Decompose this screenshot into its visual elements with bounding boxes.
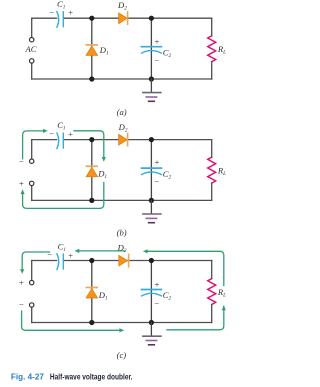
node dot: C2 top	[149, 258, 154, 263]
ground symbol	[143, 323, 161, 345]
wire: (a) top wire left of C1	[32, 17, 57, 19]
svg-text:+: +	[154, 279, 160, 289]
wire: right vertical	[211, 261, 213, 323]
current arrow: (c) bottom-left hook rightward	[22, 311, 120, 330]
arrowhead right	[43, 129, 48, 133]
wire: right vertical	[211, 140, 213, 201]
svg-text:+: +	[18, 278, 24, 288]
node dot: ground node	[149, 320, 154, 325]
resistor RL	[208, 36, 216, 62]
wire: (b) left vertical	[31, 140, 33, 201]
resistor RL	[208, 157, 216, 183]
current arrow: (c) top-left hook down to plus	[22, 252, 49, 269]
svg-text:+: +	[68, 7, 74, 17]
svg-text:−: −	[47, 250, 53, 260]
node dot: C2 top	[149, 137, 154, 142]
svg-text:−: −	[154, 176, 160, 186]
svg-text:−: −	[18, 156, 24, 166]
node dot: D1 bottom	[89, 320, 94, 325]
current arrow: (c) top right leftward and down right side	[148, 251, 224, 285]
wire: C2 branch vertical	[150, 261, 152, 323]
current arrow: (c) right side lower with up arrow	[167, 306, 224, 329]
svg-text:Half-wave voltage doubler.: Half-wave voltage doubler.	[50, 372, 133, 382]
svg-text:(b): (b)	[117, 227, 127, 237]
resistor RL	[208, 279, 216, 305]
svg-text:−: −	[154, 298, 160, 308]
svg-text:+: +	[154, 157, 160, 167]
arrowhead right	[119, 328, 124, 332]
diode D2	[119, 12, 128, 24]
arrowhead left	[143, 249, 148, 253]
wire: D1 branch vertical	[91, 261, 93, 323]
svg-text:−: −	[154, 56, 160, 66]
svg-text:Fig. 4-27: Fig. 4-27	[11, 372, 44, 382]
capacitor C2 symbol	[142, 47, 162, 53]
arrowhead up	[21, 189, 25, 194]
node dot: D1 top	[89, 137, 94, 142]
wire: D1 branch vertical	[91, 18, 93, 79]
wire: (c) left vertical	[31, 261, 33, 323]
wire: (b) bottom wire	[32, 199, 212, 201]
ground symbol	[143, 200, 161, 222]
wire: (a) bottom wire	[32, 78, 212, 80]
diode D2	[119, 254, 129, 266]
wire: (a) top wire right of C1	[63, 17, 211, 19]
terminal: (a) AC bottom terminal	[30, 59, 34, 63]
svg-text:AC: AC	[25, 44, 37, 54]
node dot: C2 top	[149, 16, 154, 21]
svg-text:−: −	[49, 129, 55, 139]
diode D1	[86, 288, 98, 299]
wire: (c) top wire	[32, 260, 212, 262]
terminal: (b) top (minus)	[30, 159, 34, 163]
terminal: (c) top (plus)	[30, 280, 34, 284]
wire: C2 branch vertical	[150, 140, 152, 201]
wire: D1 branch vertical	[91, 140, 93, 201]
current arrow: (b) top-right segment going down	[74, 131, 104, 157]
node dot: ground node	[149, 198, 154, 203]
arrowhead down	[102, 157, 106, 162]
svg-text:(a): (a)	[117, 107, 127, 117]
arrowhead down	[20, 269, 24, 274]
capacitor C1 symbol	[57, 12, 63, 28]
arrowhead up	[222, 305, 226, 310]
terminal: (a) AC top terminal	[30, 38, 34, 42]
arrowhead left	[75, 249, 80, 253]
terminal: (b) bottom (plus)	[30, 181, 34, 185]
svg-text:(c): (c)	[117, 350, 127, 360]
node dot: D1 top	[89, 16, 94, 21]
wire: C2 branch vertical	[150, 18, 152, 79]
capacitor C1 symbol	[57, 133, 63, 149]
wire: (a) left vertical to AC terminals	[31, 18, 33, 79]
wire: (b) top wire	[32, 139, 212, 141]
svg-text:−: −	[18, 299, 24, 309]
terminal: (c) bottom (minus)	[30, 303, 34, 307]
svg-text:+: +	[18, 178, 24, 188]
caption	[11, 372, 133, 382]
capacitor C2 symbol	[142, 290, 162, 296]
capacitor C2 symbol	[142, 168, 162, 174]
wire: (c) bottom wire	[32, 322, 212, 324]
current arrow: (b) bottom loop	[23, 183, 104, 209]
svg-text:−: −	[49, 7, 55, 17]
svg-text:+: +	[68, 129, 74, 139]
diode D1	[86, 166, 98, 177]
diode D2	[119, 133, 128, 145]
capacitor C1 symbol	[57, 254, 63, 270]
current arrow: (b) top-left hook	[23, 131, 43, 159]
node dot: D1 top	[89, 258, 94, 263]
node dot: D1 bottom	[89, 198, 94, 203]
svg-text:+: +	[154, 37, 160, 47]
node dot: D1 bottom	[89, 76, 94, 81]
current arrow: (c) top mid leftward	[79, 250, 124, 252]
node dot: C2 bottom / ground node	[149, 76, 154, 81]
svg-text:+: +	[68, 251, 74, 261]
ground symbol	[143, 79, 161, 101]
wire: right vertical	[211, 18, 213, 79]
diode D1	[86, 45, 98, 56]
